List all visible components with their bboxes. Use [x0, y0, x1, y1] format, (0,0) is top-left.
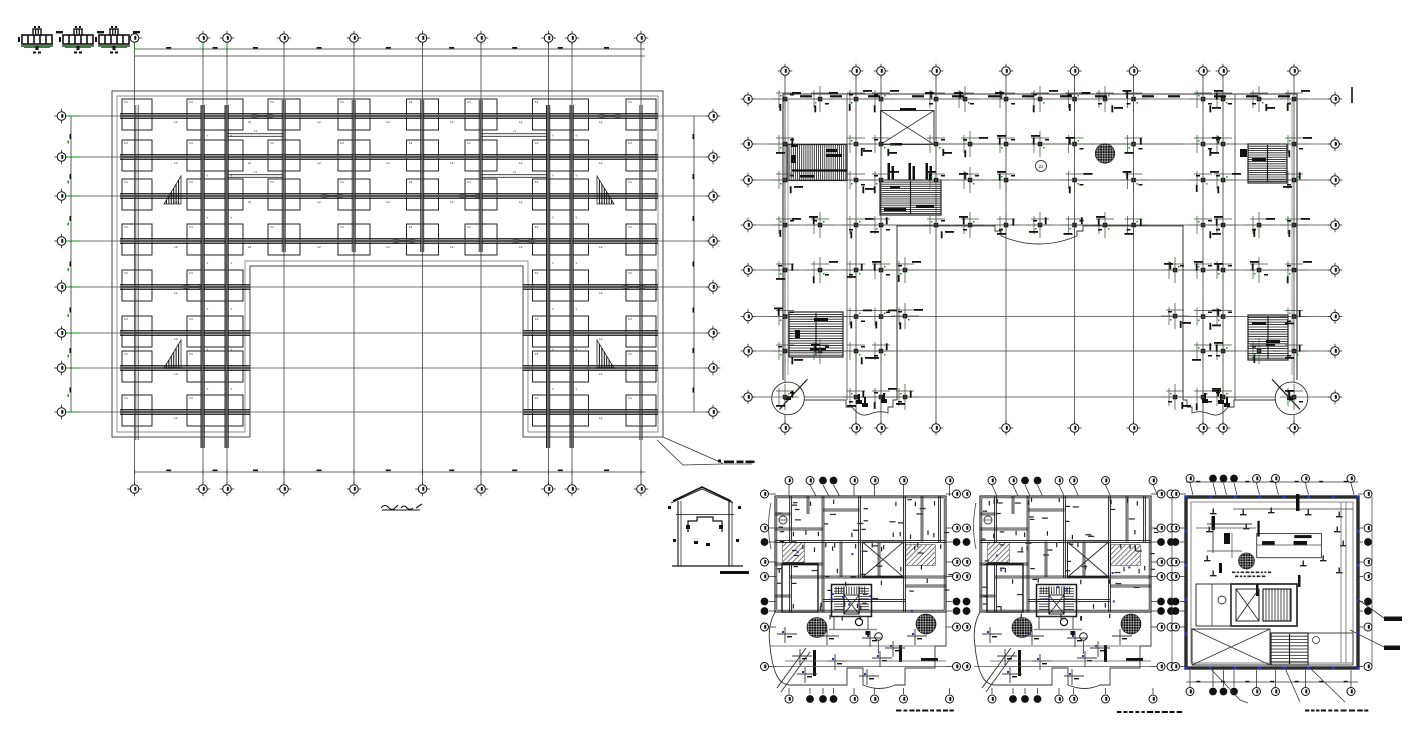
black dashes right of P3 — [1384, 617, 1402, 622]
beam row 8 — [120, 409, 250, 411]
grid bubble — [277, 488, 292, 490]
bubble — [1256, 670, 1258, 687]
stair right wing upper — [1248, 144, 1287, 183]
column mark (936,99) — [934, 97, 939, 102]
column mark (1294,397) — [1292, 395, 1297, 400]
bubble — [769, 576, 776, 578]
grid bubble — [1328, 316, 1343, 318]
svg-text:L2: L2 — [387, 245, 391, 249]
column mark (1203,316) — [1201, 314, 1206, 319]
column mark (1134,180) — [1131, 178, 1136, 183]
column mark (1203,99) — [1201, 97, 1206, 102]
svg-text:F4: F4 — [189, 141, 193, 145]
footing r1c2 — [187, 99, 243, 130]
bubble pair — [1151, 576, 1157, 578]
svg-text:V: V — [207, 261, 209, 265]
grid bubble — [474, 488, 489, 490]
grid bubble — [706, 411, 721, 413]
svg-text:F4: F4 — [535, 100, 539, 104]
caption P1 — [896, 710, 901, 712]
column mark (970,144) — [968, 142, 973, 147]
bubble — [1037, 688, 1039, 694]
svg-text:L1: L1 — [254, 129, 257, 133]
svg-text:F4: F4 — [467, 180, 471, 184]
column mark (1294,144) — [1292, 142, 1297, 147]
footing r2c5 — [407, 140, 439, 171]
footing r7c7 — [533, 351, 589, 382]
column mark (1203,225) — [1201, 223, 1206, 228]
bubble — [949, 485, 951, 496]
bubble — [1358, 626, 1363, 628]
grid bubble — [874, 70, 889, 72]
column mark (1203,397) — [1201, 395, 1206, 400]
P3 left rooms — [1196, 584, 1231, 626]
P1 row9 grid line — [769, 666, 952, 668]
svg-text:V: V — [552, 261, 554, 265]
grid line H — [67, 332, 708, 334]
grid line V — [283, 43, 285, 484]
stair mid — [880, 180, 941, 215]
blue dots interior — [832, 593, 834, 595]
svg-text:F4: F4 — [270, 141, 274, 145]
svg-text:V: V — [231, 307, 233, 311]
bubble — [769, 493, 776, 495]
beam row 1 — [120, 113, 658, 115]
vertical beam — [135, 105, 137, 440]
grid bubble — [54, 195, 69, 197]
footing r2c2 — [187, 140, 243, 171]
grid bubble — [741, 143, 756, 145]
svg-text:L2: L2 — [599, 291, 603, 295]
footing r5c7 — [533, 270, 589, 301]
section roof — [673, 487, 731, 501]
svg-text:F4: F4 — [124, 317, 128, 321]
column mark (1074,99) — [1072, 97, 1077, 102]
bubble — [769, 541, 776, 543]
bubble — [1073, 688, 1075, 694]
grid bubble — [127, 37, 142, 39]
bubble — [1306, 483, 1309, 495]
bubble — [1189, 670, 1191, 687]
bubble — [810, 485, 816, 496]
bubble — [1013, 485, 1018, 496]
grid bubble — [999, 70, 1014, 72]
column mark (1203,180) — [1201, 178, 1206, 183]
bubble pair — [1151, 527, 1157, 529]
column mark (820,351) — [818, 349, 823, 354]
beam row 8 — [523, 409, 658, 411]
svg-text:F4: F4 — [628, 352, 632, 356]
lower zone dim chains — [770, 645, 935, 647]
grid bubble — [849, 70, 864, 72]
grid line V — [1074, 76, 1076, 424]
grid bubble — [1328, 98, 1343, 100]
column mark (1259,225) — [1257, 223, 1262, 228]
P3 leader lines bottom — [1210, 668, 1240, 700]
bubble — [1358, 610, 1363, 612]
svg-text:F4: F4 — [270, 100, 274, 104]
svg-text:V: V — [576, 261, 578, 265]
hatched column circle — [1095, 144, 1115, 164]
bubble — [833, 688, 835, 694]
grid bubble — [541, 488, 556, 490]
column mark (856,270) — [854, 268, 859, 273]
room below left — [782, 564, 818, 612]
hatched rect right — [906, 545, 935, 565]
left dimension line — [70, 116, 72, 412]
left outer wavy edge — [974, 612, 994, 685]
large X box — [863, 542, 904, 577]
svg-text:L2: L2 — [599, 337, 603, 341]
bubble — [1180, 666, 1186, 668]
stair top-left — [787, 145, 847, 181]
bubble — [788, 485, 790, 496]
section columns — [677, 501, 679, 566]
footing r1c4 — [338, 99, 370, 130]
tiny dim bars — [857, 523, 863, 524]
column mark (905,316) — [903, 314, 908, 319]
column mark (970,180) — [968, 178, 973, 183]
svg-text:V: V — [207, 348, 209, 352]
bubble — [1358, 576, 1363, 578]
svg-text:L2: L2 — [450, 245, 454, 249]
large X box — [1068, 542, 1109, 577]
footing r3c7 — [533, 179, 589, 210]
grid bubble — [741, 316, 756, 318]
bubble — [853, 485, 855, 496]
upper-left outer arc — [974, 503, 977, 549]
grid bubble — [1328, 143, 1343, 145]
grid bubble — [706, 286, 721, 288]
column mark (1259,99) — [1257, 97, 1262, 102]
grid line H — [754, 350, 1330, 352]
bubble — [1105, 688, 1107, 694]
column mark (1203,351) — [1201, 349, 1206, 354]
column mark (1175,316) — [1173, 314, 1178, 319]
grid bubble — [196, 488, 211, 490]
column mark (856,397) — [854, 395, 859, 400]
secondary beams between rows — [227, 133, 284, 135]
footing r5c2 — [187, 270, 243, 301]
footing r7c1 — [122, 351, 152, 382]
svg-text:F4: F4 — [409, 141, 413, 145]
grid bubble — [778, 427, 793, 429]
bubble — [1025, 485, 1030, 496]
black bars lower zone — [813, 650, 816, 676]
grid line H — [67, 115, 708, 117]
grid bubble — [415, 488, 430, 490]
svg-text:L2: L2 — [599, 161, 603, 165]
svg-text:L1: L1 — [513, 129, 516, 133]
stair triangle right lower — [597, 340, 614, 368]
bubble — [1180, 601, 1186, 603]
svg-text:L2: L2 — [174, 372, 178, 376]
svg-text:F4: F4 — [340, 100, 344, 104]
column mark (1006,225) — [1004, 223, 1009, 228]
bubble — [1350, 670, 1352, 687]
bubble pair — [946, 610, 952, 612]
column mark (1223,397) — [1221, 395, 1226, 400]
column mark (905,270) — [903, 268, 908, 273]
svg-text:F4: F4 — [340, 141, 344, 145]
grid line V — [935, 76, 937, 424]
svg-text:V: V — [576, 387, 578, 391]
svg-text:F4: F4 — [467, 225, 471, 229]
grid line V — [880, 76, 882, 424]
svg-text:L2: L2 — [519, 161, 523, 165]
bubble — [992, 485, 997, 496]
grid bubble — [778, 70, 793, 72]
bubble — [1058, 688, 1060, 694]
bubble — [1180, 561, 1186, 563]
bubble — [1276, 483, 1279, 495]
bubble — [1038, 485, 1043, 496]
vertical beam — [639, 105, 641, 440]
svg-text:F4: F4 — [535, 271, 539, 275]
svg-text:F4: F4 — [189, 180, 193, 184]
section interior — [688, 517, 722, 532]
footing r8c1 — [122, 395, 152, 426]
section marks — [668, 506, 671, 509]
grid bubble — [929, 427, 944, 429]
plan interior horizontal walls — [775, 527, 823, 529]
svg-text:F4: F4 — [189, 396, 193, 400]
svg-text:L2: L2 — [599, 372, 603, 376]
svg-text:L2: L2 — [174, 161, 178, 165]
column mark (1074,144) — [1072, 142, 1077, 147]
footing r3c6 — [465, 179, 497, 210]
plan outer walls — [775, 496, 946, 612]
vertical beam — [281, 100, 283, 252]
bottom wavy outline — [994, 612, 1151, 689]
svg-text:L2: L2 — [599, 416, 603, 420]
stair core — [832, 585, 872, 617]
beam row 6 — [523, 330, 658, 332]
grid bubble — [1328, 269, 1343, 271]
bubble — [1223, 670, 1225, 687]
footing r4c4 — [338, 224, 370, 255]
top dimension lines — [135, 48, 645, 50]
grid bubble — [541, 37, 556, 39]
footing r2c7 — [533, 140, 589, 171]
bubble — [1012, 688, 1014, 694]
svg-text:L1: L1 — [254, 170, 257, 174]
right wing spiral stair circle — [1275, 382, 1308, 415]
svg-text:F4: F4 — [535, 180, 539, 184]
grid line V — [784, 76, 786, 424]
svg-text:22: 22 — [1038, 164, 1044, 169]
svg-text:V: V — [231, 216, 233, 220]
svg-text:F4: F4 — [189, 225, 193, 229]
grid bubble — [54, 156, 69, 158]
bubble — [788, 688, 790, 694]
svg-text:F4: F4 — [628, 317, 632, 321]
caption P3 — [1305, 710, 1309, 712]
diagonal leader — [777, 648, 806, 688]
grid bubble — [220, 37, 235, 39]
svg-text:F4: F4 — [535, 352, 539, 356]
footing r2c3 — [268, 140, 300, 171]
svg-text:V: V — [576, 348, 578, 352]
P3 stair bottom — [1271, 633, 1308, 665]
bubble pair — [1151, 601, 1157, 603]
svg-text:L2: L2 — [317, 200, 321, 204]
grid bubble — [1196, 70, 1211, 72]
svg-text:L2: L2 — [317, 245, 321, 249]
column mark (1223,180) — [1221, 178, 1226, 183]
tiny dim bars — [1081, 566, 1087, 567]
balcony arc — [1001, 236, 1077, 244]
dark circle left — [1012, 618, 1032, 638]
column mark (1134,225) — [1131, 223, 1136, 228]
footing r7c8 — [626, 351, 656, 382]
bubble — [1358, 493, 1363, 495]
bubble — [1190, 483, 1193, 495]
grid bubble — [999, 427, 1014, 429]
footing r6c2 — [187, 316, 243, 347]
grid line V — [1202, 76, 1204, 424]
footing r5c8 — [626, 270, 656, 301]
svg-text:L2: L2 — [248, 120, 252, 124]
svg-text:F4: F4 — [270, 180, 274, 184]
column mark (1175,397) — [1173, 395, 1178, 400]
bubble — [1212, 670, 1214, 687]
bubble — [769, 561, 776, 563]
svg-text:F4: F4 — [124, 141, 128, 145]
beam row 3 — [120, 193, 658, 195]
grid bubble — [347, 37, 362, 39]
svg-text:F4: F4 — [124, 100, 128, 104]
beam row 5 — [120, 284, 250, 286]
svg-text:L2: L2 — [317, 120, 321, 124]
left wing corridor wall — [846, 94, 848, 400]
toilet circle top-left — [779, 516, 787, 524]
footing r3c8 — [626, 179, 656, 210]
svg-text:V: V — [552, 134, 554, 138]
svg-text:V: V — [231, 387, 233, 391]
svg-text:F4: F4 — [124, 225, 128, 229]
footing r4c7 — [533, 224, 589, 255]
lower zone dim chains — [975, 645, 1140, 647]
grid line H — [754, 396, 1330, 398]
bubble pair — [1151, 493, 1157, 495]
column mark (856,180) — [854, 178, 859, 183]
column mark (785,270) — [783, 268, 788, 273]
footing r4c5 — [407, 224, 439, 255]
svg-text:F4: F4 — [467, 141, 471, 145]
bubble 22 — [1036, 161, 1047, 172]
P3 bottom right room — [1308, 633, 1353, 665]
bubble — [834, 485, 840, 496]
svg-text:L2: L2 — [450, 200, 454, 204]
grid bubble — [1067, 427, 1082, 429]
svg-text:F4: F4 — [124, 396, 128, 400]
hatched rect left — [988, 543, 1009, 562]
grid line V — [422, 43, 424, 484]
bubble — [823, 485, 829, 496]
footing r6c7 — [533, 316, 589, 347]
svg-text:F4: F4 — [409, 100, 413, 104]
svg-text:V: V — [576, 307, 578, 311]
section scale bar — [720, 571, 749, 574]
plan interior vertical walls — [994, 496, 996, 612]
grid bubble — [474, 37, 489, 39]
vertical beam — [478, 100, 480, 252]
room below left — [987, 564, 1023, 612]
svg-text:L2: L2 — [248, 245, 252, 249]
column mark (820,225) — [818, 223, 823, 228]
svg-text:L2: L2 — [519, 200, 523, 204]
grid line V — [226, 43, 228, 484]
svg-text:F4: F4 — [535, 141, 539, 145]
grid bubble — [54, 332, 69, 334]
column mark (785,225) — [783, 223, 788, 228]
column mark (1223,225) — [1221, 223, 1226, 228]
svg-text:F4: F4 — [628, 141, 632, 145]
column mark (881,397) — [879, 395, 884, 400]
svg-text:F4: F4 — [628, 100, 632, 104]
column mark (1223,316) — [1221, 314, 1226, 319]
grid line V — [855, 76, 857, 424]
bubble — [1152, 688, 1154, 694]
grid bubble — [54, 367, 69, 369]
beam row 7 — [120, 365, 250, 367]
grid bubble — [849, 427, 864, 429]
beam row 6 — [120, 330, 250, 332]
svg-text:V: V — [207, 216, 209, 220]
svg-text:F4: F4 — [270, 225, 274, 229]
bubble pair — [946, 541, 952, 543]
top wall dashes — [800, 95, 812, 97]
grid bubble — [706, 156, 721, 158]
footing r1c1 — [122, 99, 152, 130]
bubble — [1257, 483, 1260, 495]
beam row 5 — [523, 284, 658, 286]
svg-text:V: V — [552, 348, 554, 352]
room under stair — [834, 617, 868, 630]
right wing bottom wavy edge — [1183, 400, 1276, 415]
P3 small bar — [1219, 563, 1222, 573]
bubble — [1358, 527, 1363, 529]
grid bubble — [741, 179, 756, 181]
column mark (856,316) — [854, 314, 859, 319]
dark circle right — [916, 614, 936, 634]
column mark (881,270) — [879, 268, 884, 273]
bubble — [1059, 485, 1064, 496]
footing r1c3 — [268, 99, 300, 130]
section ground line — [672, 565, 743, 567]
svg-text:V: V — [207, 387, 209, 391]
footing r3c5 — [407, 179, 439, 210]
grid bubble — [54, 115, 69, 117]
grid bubble — [706, 367, 721, 369]
column mark (881,351) — [879, 349, 884, 354]
wall ticks — [1085, 565, 1086, 570]
stair core — [1037, 585, 1077, 617]
upper-left outer arc — [769, 503, 772, 549]
bubble pair — [1151, 666, 1157, 668]
P3 top dim line inside — [1233, 508, 1353, 510]
grid bubble — [706, 332, 721, 334]
column mark (936,144) — [934, 142, 939, 147]
svg-text:L1: L1 — [513, 170, 516, 174]
grid line V — [640, 43, 642, 484]
beam row 4 — [120, 238, 658, 240]
small bubble under core — [1080, 633, 1088, 641]
column mark (905,397) — [903, 395, 908, 400]
hatched rect right — [1111, 545, 1140, 565]
footing r6c1 — [122, 316, 152, 347]
